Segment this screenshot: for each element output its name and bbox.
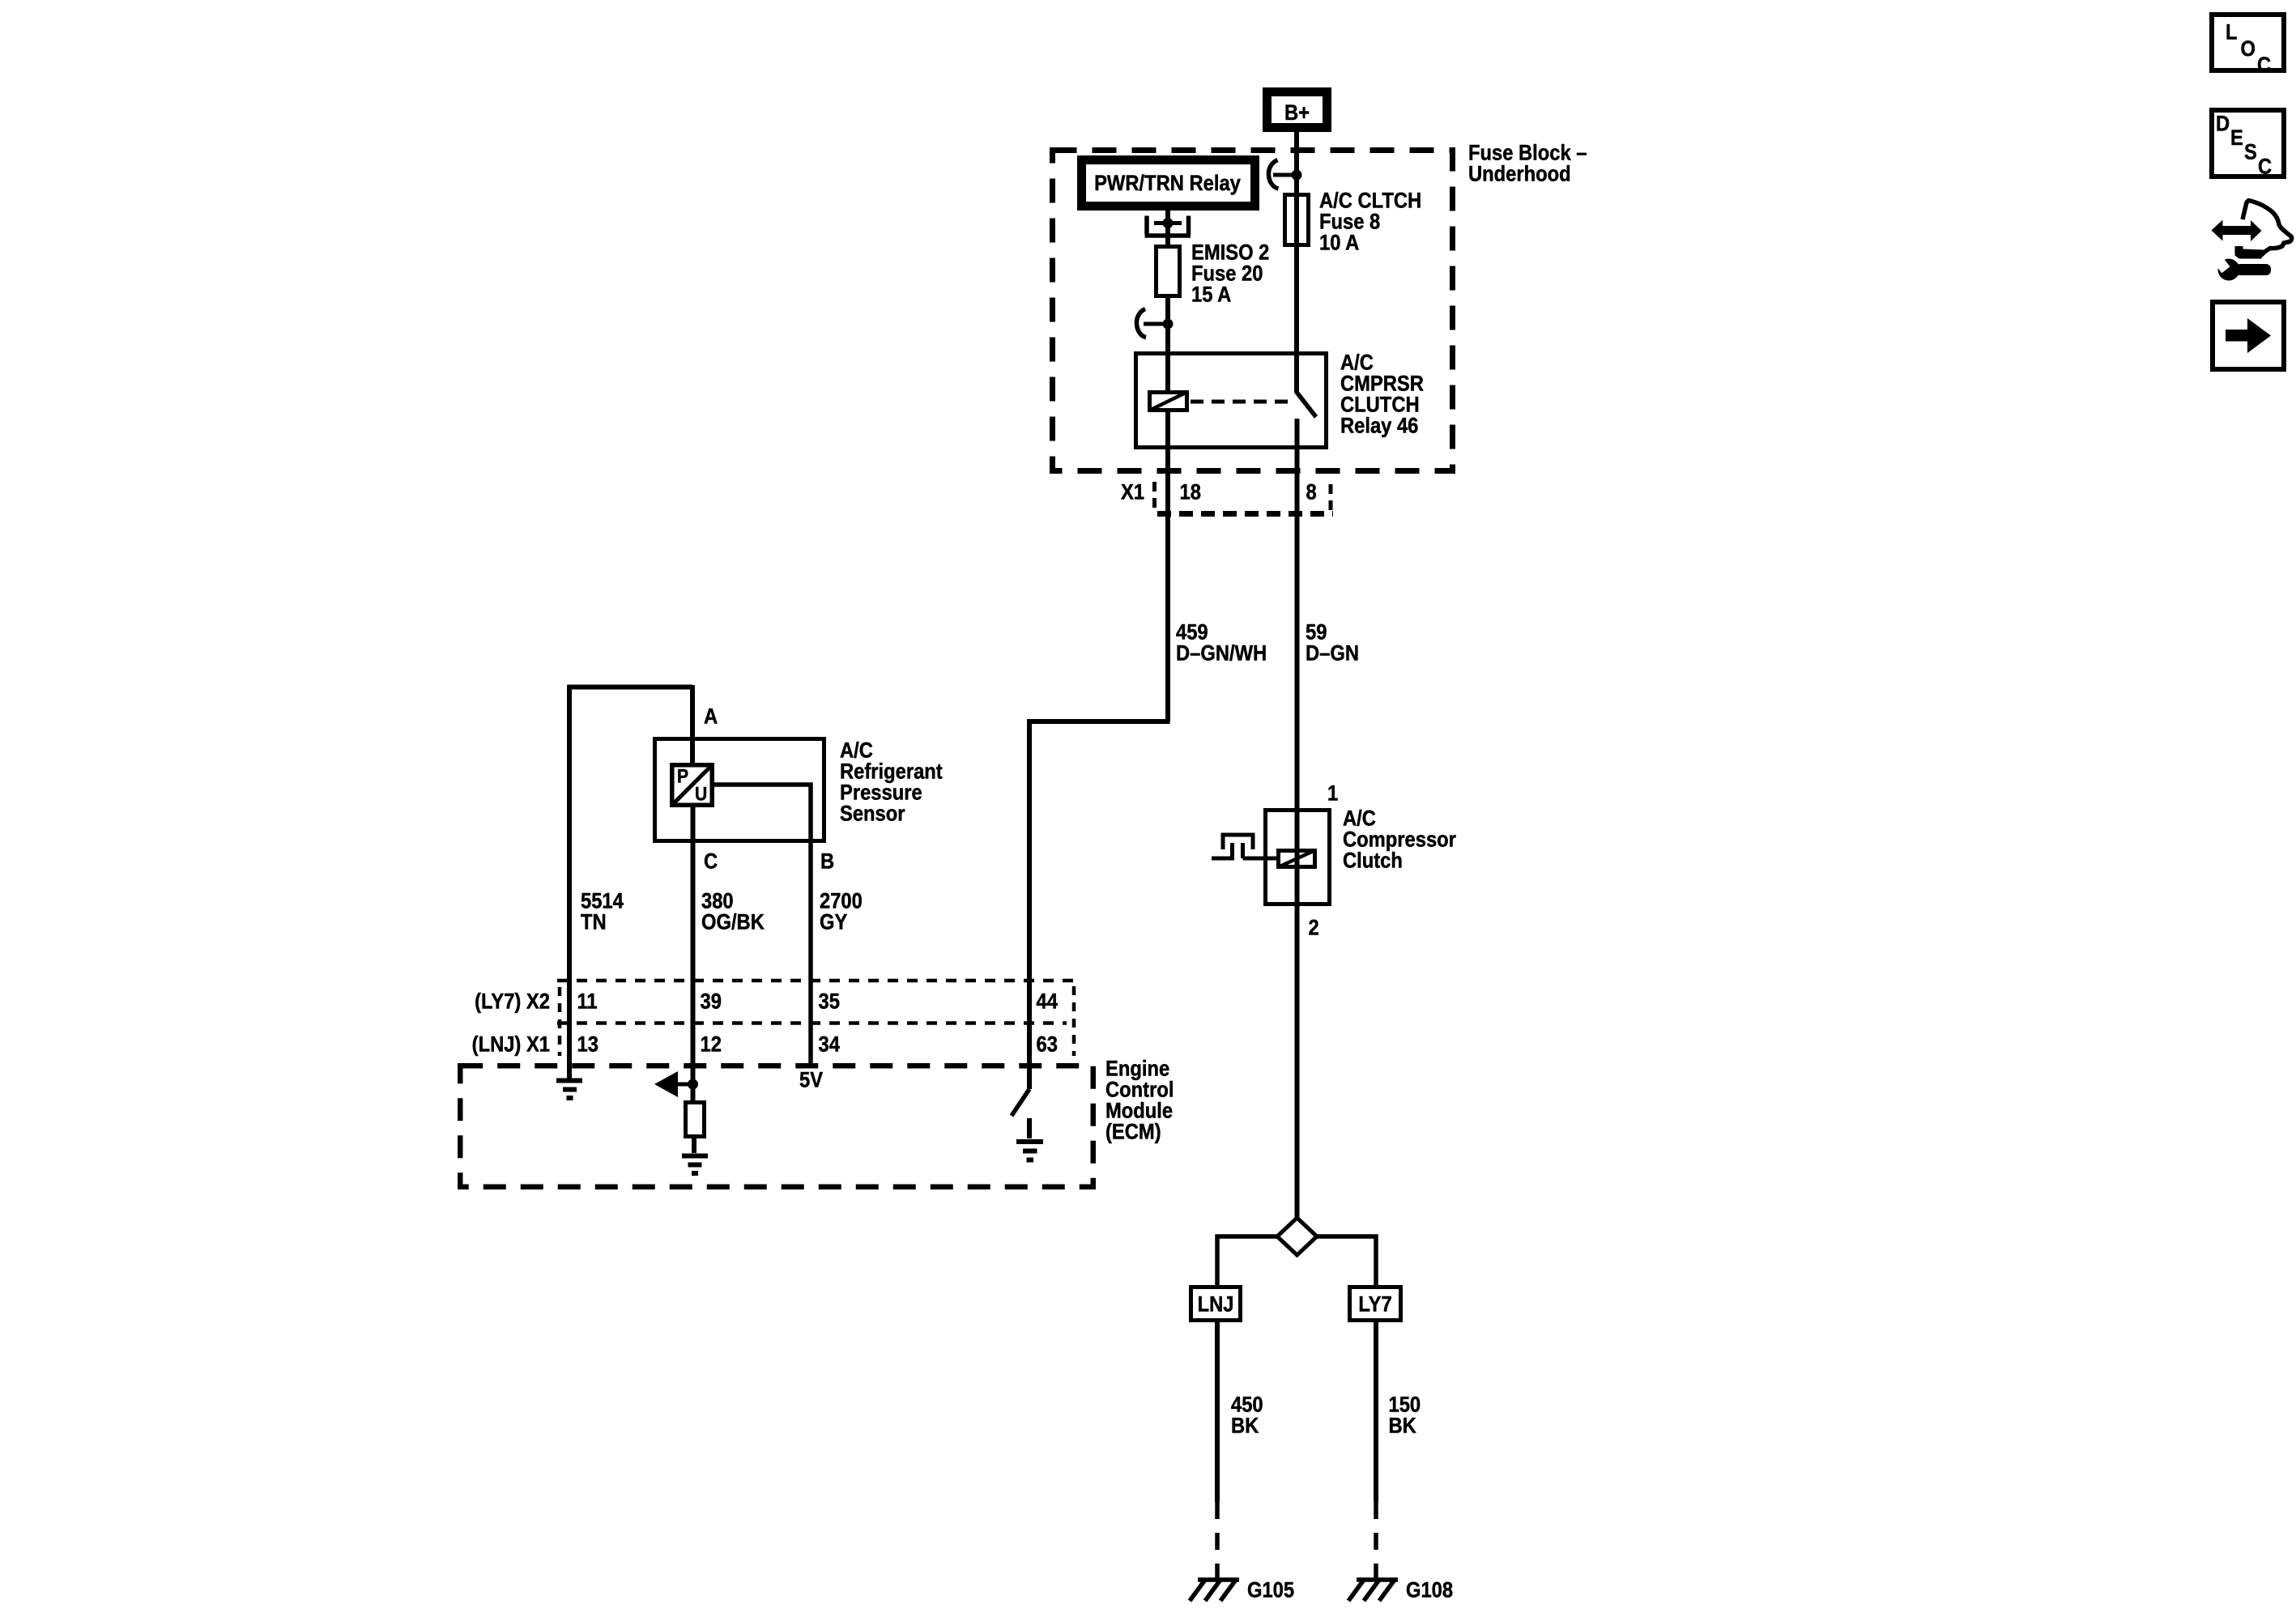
- connector LY7 box: [1350, 1287, 1401, 1321]
- ground symbol ECM switch: [1016, 1142, 1043, 1160]
- sensor P/U transducer symbol: [672, 765, 713, 806]
- label G105: [1247, 1578, 1294, 1602]
- wire 59 D-GN from relay contact to clutch: [1295, 419, 1300, 1219]
- label Engine Control Module (ECM): [1105, 1057, 1169, 1081]
- label 59 D-GN: [1306, 620, 1327, 645]
- pin 13 label: [577, 1032, 598, 1057]
- switch blade in ECM: [1012, 1089, 1029, 1116]
- wire 459 down to ECM pin 44/63: [1027, 719, 1032, 1066]
- label A/C Compressor Clutch: [1343, 806, 1376, 831]
- connector row X2 top dashed line: [557, 979, 1073, 983]
- pin 35 label: [819, 989, 840, 1014]
- label (LNJ) X1: [472, 1032, 550, 1057]
- clutch box A/C Compressor Clutch: [1266, 811, 1330, 904]
- junction dot below EMISO fuse: [1163, 319, 1174, 330]
- svg-text:35: 35: [819, 989, 840, 1014]
- label 450 BK: [1231, 1393, 1263, 1417]
- wire EMISO fuse to relay coil: [1165, 298, 1170, 390]
- svg-text:Underhood: Underhood: [1468, 162, 1571, 186]
- label 5V reference: [799, 1068, 823, 1092]
- svg-text:GY: GY: [820, 910, 847, 934]
- wire sensor pin C lead down to ECM: [691, 806, 696, 1102]
- pin B label: [820, 849, 834, 874]
- pin 44 label: [1037, 989, 1058, 1014]
- svg-text:O: O: [2241, 37, 2256, 62]
- wire PWR/TRN relay to EMISO fuse: [1165, 211, 1170, 245]
- svg-text:Clutch: Clutch: [1343, 849, 1403, 873]
- wire splice left branch to LNJ: [1217, 1236, 1278, 1287]
- pin C label: [704, 849, 718, 874]
- wire stub to terminal hook: [1273, 173, 1297, 177]
- wire 450 BK: [1215, 1322, 1220, 1502]
- pin 8 label: [1306, 480, 1317, 504]
- label A/C CMPRSR CLUTCH Relay 46: [1340, 351, 1374, 375]
- wire sensor top jumper: [568, 685, 693, 690]
- label A/C Refrigerant Pressure Sensor: [840, 738, 873, 763]
- connector row right separator: [1072, 986, 1076, 1056]
- svg-text:D–GN/WH: D–GN/WH: [1176, 641, 1267, 666]
- junction dot at B+ feed: [1292, 170, 1302, 181]
- clutch coil: [1278, 850, 1315, 867]
- resistor in ECM pin 12 branch: [686, 1103, 705, 1137]
- ground G105: [1190, 1580, 1239, 1601]
- svg-text:D–GN: D–GN: [1306, 641, 1359, 666]
- icon forward-arrow box: [2213, 302, 2284, 369]
- wire ECM pin 63 to switch: [1027, 1066, 1032, 1089]
- icon DESC box: [2212, 110, 2284, 177]
- relay K46 coil-to-contact dashed link: [1191, 400, 1294, 404]
- label 2700 GY: [820, 889, 863, 913]
- label 459 D-GN/WH: [1176, 620, 1208, 645]
- wire sensor P/U to pin B: [714, 785, 811, 1066]
- svg-text:S: S: [2244, 140, 2257, 164]
- wire resistor to ground: [692, 1138, 696, 1153]
- svg-text:(LNJ) X1: (LNJ) X1: [472, 1032, 550, 1057]
- ground symbol ECM pin 12: [682, 1156, 708, 1174]
- icon double-arrow hand with wrench: [2212, 201, 2292, 281]
- connector X1 fuse block pin row: [1155, 482, 1334, 514]
- signal arrow at ECM pin 12: [654, 1071, 693, 1097]
- wire fuse 8 to relay contact: [1294, 194, 1299, 392]
- wire 5514 TN vertical: [567, 685, 572, 1079]
- svg-text:Sensor: Sensor: [840, 802, 905, 826]
- ground G108: [1348, 1580, 1398, 1601]
- wire sensor pin A lead: [690, 685, 695, 764]
- relay K46 coil: [1149, 392, 1187, 411]
- svg-text:LY7: LY7: [1358, 1292, 1391, 1317]
- svg-text:B+: B+: [1284, 101, 1310, 126]
- svg-text:BK: BK: [1389, 1414, 1417, 1438]
- svg-text:G105: G105: [1247, 1578, 1294, 1602]
- junction dot ECM pin 12 input: [688, 1079, 698, 1090]
- icon LOC box: [2212, 15, 2284, 70]
- fuse block dashed outline: [1053, 151, 1453, 471]
- svg-text:TN: TN: [581, 910, 607, 934]
- wire 459 D-GN/WH vertical from pin 18: [1165, 449, 1170, 721]
- pin 18 label: [1180, 480, 1201, 504]
- wire coil through relay (pin 18 side): [1165, 412, 1170, 721]
- label 150 BK: [1389, 1393, 1421, 1417]
- svg-text:44: 44: [1037, 989, 1058, 1014]
- svg-text:15 A: 15 A: [1191, 283, 1231, 307]
- svg-text:D: D: [2216, 112, 2230, 136]
- pin 39 label: [701, 989, 722, 1014]
- svg-text:C: C: [704, 849, 718, 874]
- pin 2 label clutch: [1309, 916, 1319, 940]
- svg-text:8: 8: [1306, 480, 1317, 504]
- wire 150 BK dashed segment: [1374, 1502, 1378, 1580]
- thermal limiter symbol: [1212, 835, 1278, 858]
- pin 1 label clutch: [1327, 781, 1338, 806]
- svg-text:18: 18: [1180, 480, 1201, 504]
- wire splice right branch to LY7: [1316, 1236, 1376, 1287]
- svg-text:B: B: [820, 849, 834, 874]
- svg-text:U: U: [695, 783, 707, 805]
- ground symbol ECM pin 13: [556, 1081, 582, 1099]
- pin 34 label: [819, 1032, 840, 1057]
- svg-text:63: 63: [1037, 1032, 1058, 1057]
- pin 63 label: [1037, 1032, 1058, 1057]
- pin 11 label: [577, 989, 598, 1014]
- wire B+ to fuse 8: [1294, 132, 1299, 194]
- svg-text:P: P: [677, 765, 688, 787]
- svg-text:39: 39: [701, 989, 722, 1014]
- splice diamond: [1277, 1218, 1317, 1255]
- connector row left separator: [558, 987, 562, 1056]
- svg-text:12: 12: [701, 1032, 722, 1057]
- relay box PWR/TRN Relay: [1082, 160, 1255, 206]
- svg-text:34: 34: [819, 1032, 840, 1057]
- pin 12 label: [701, 1032, 722, 1057]
- svg-text:1: 1: [1327, 781, 1338, 806]
- svg-text:LNJ: LNJ: [1198, 1292, 1234, 1317]
- label (LY7) X2: [475, 989, 550, 1014]
- svg-text:OG/BK: OG/BK: [701, 910, 765, 934]
- svg-text:X1: X1: [1121, 480, 1144, 504]
- label EMISO 2 Fuse 20 15 A: [1191, 240, 1269, 265]
- sensor box A/C Refrigerant Pressure Sensor: [655, 739, 824, 841]
- connector LNJ box: [1191, 1287, 1241, 1321]
- svg-text:Relay 46: Relay 46: [1340, 414, 1418, 438]
- wire stub to terminal hook 2: [1144, 322, 1168, 326]
- wire 459 corner horizontal: [1028, 719, 1170, 724]
- svg-text:(LY7) X2: (LY7) X2: [475, 989, 550, 1014]
- fuse F20 EMISO 2 Fuse 20 15A: [1157, 247, 1180, 296]
- svg-text:E: E: [2230, 126, 2243, 150]
- terminal hook at B+ feed: [1268, 160, 1278, 189]
- label X1: [1121, 480, 1144, 504]
- terminal bracket under PWR/TRN relay: [1145, 216, 1191, 236]
- wire 450 BK dashed segment: [1215, 1502, 1220, 1580]
- label 5514 TN: [581, 889, 624, 913]
- svg-text:(ECM): (ECM): [1105, 1120, 1161, 1144]
- pin A label: [704, 704, 718, 729]
- switch contact stub to ground: [1027, 1118, 1032, 1138]
- svg-text:G108: G108: [1406, 1578, 1453, 1602]
- label G108: [1406, 1578, 1453, 1602]
- svg-text:11: 11: [577, 989, 598, 1014]
- svg-text:A: A: [704, 704, 718, 729]
- svg-text:PWR/TRN Relay: PWR/TRN Relay: [1094, 172, 1241, 196]
- terminal hook below EMISO fuse: [1136, 309, 1146, 338]
- svg-text:BK: BK: [1231, 1414, 1259, 1438]
- svg-text:10 A: 10 A: [1319, 231, 1359, 255]
- power node B+: [1267, 92, 1327, 128]
- svg-text:L: L: [2226, 20, 2238, 45]
- connector row divider dashed line: [557, 1021, 1067, 1025]
- svg-text:5V: 5V: [799, 1068, 823, 1092]
- wire 150 BK: [1374, 1322, 1378, 1502]
- svg-text:2: 2: [1309, 916, 1319, 940]
- relay K46 A/C CMPRSR CLUTCH Relay 46 box: [1136, 354, 1327, 448]
- label Fuse Block - Underhood: [1468, 141, 1587, 165]
- svg-text:C: C: [2258, 155, 2272, 179]
- ECM dashed outline: [460, 1066, 1093, 1187]
- svg-text:13: 13: [577, 1032, 598, 1057]
- relay K46 switch blade: [1296, 391, 1316, 417]
- svg-text:C: C: [2257, 53, 2271, 78]
- label A/C CLTCH Fuse 8 10 A: [1319, 189, 1421, 213]
- fuse F8 A/C CLTCH Fuse 8 10A: [1285, 195, 1309, 245]
- label 380 OG/BK: [701, 889, 734, 913]
